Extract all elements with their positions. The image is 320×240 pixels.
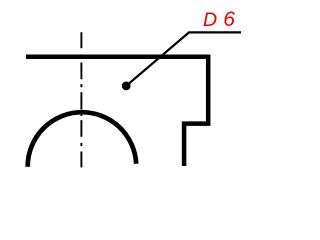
arc (semicircular boss) bbox=[28, 112, 137, 167]
svg-text:D: D bbox=[203, 9, 217, 31]
leader line to label D 6 bbox=[126, 32, 241, 86]
svg-text:6: 6 bbox=[223, 8, 235, 31]
vertical dash-dot centerline bbox=[80, 32, 82, 167]
leader dot bbox=[122, 82, 131, 91]
part outline: top edge and stepped right side bbox=[26, 57, 208, 166]
